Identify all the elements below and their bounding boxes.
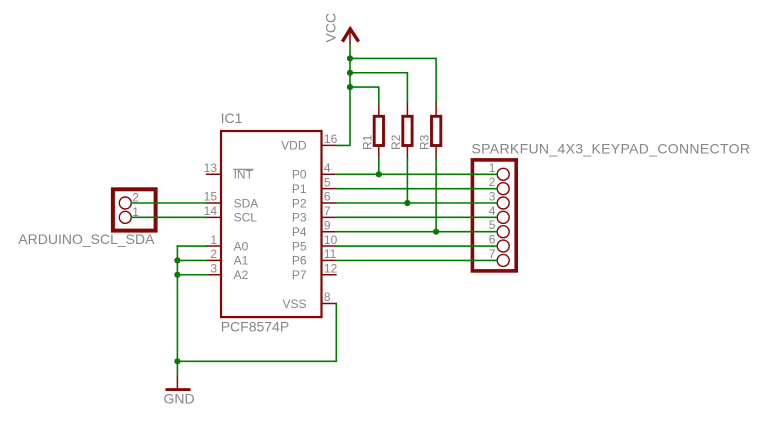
svg-text:9: 9 — [324, 218, 331, 232]
svg-text:5: 5 — [489, 218, 496, 232]
svg-text:P7: P7 — [292, 268, 307, 282]
svg-text:15: 15 — [204, 190, 218, 204]
svg-text:10: 10 — [324, 233, 338, 247]
svg-text:1: 1 — [489, 161, 496, 175]
svg-text:6: 6 — [489, 233, 496, 247]
svg-text:R1: R1 — [360, 134, 374, 150]
svg-text:VDD: VDD — [281, 139, 307, 153]
svg-text:VCC: VCC — [323, 13, 339, 43]
svg-text:P4: P4 — [292, 225, 307, 239]
svg-text:A0: A0 — [234, 239, 249, 253]
svg-text:2: 2 — [489, 175, 496, 189]
svg-text:7: 7 — [489, 247, 496, 261]
svg-text:3: 3 — [489, 190, 496, 204]
svg-text:1: 1 — [132, 205, 139, 219]
svg-text:5: 5 — [324, 175, 331, 189]
svg-text:14: 14 — [204, 204, 218, 218]
svg-text:1: 1 — [210, 233, 217, 247]
svg-text:8: 8 — [324, 290, 331, 304]
svg-text:SDA: SDA — [234, 196, 259, 210]
svg-text:6: 6 — [324, 190, 331, 204]
svg-text:A1: A1 — [234, 254, 249, 268]
svg-text:R3: R3 — [418, 134, 432, 150]
svg-text:P1: P1 — [292, 182, 307, 196]
svg-text:P0: P0 — [292, 168, 307, 182]
svg-text:12: 12 — [324, 261, 338, 275]
svg-text:PCF8574P: PCF8574P — [221, 318, 289, 334]
svg-text:SCL: SCL — [234, 211, 258, 225]
svg-text:VSS: VSS — [282, 297, 306, 311]
svg-text:R2: R2 — [389, 134, 403, 150]
svg-text:13: 13 — [204, 161, 218, 175]
svg-text:IC1: IC1 — [221, 110, 243, 126]
svg-text:2: 2 — [132, 191, 139, 205]
svg-text:16: 16 — [324, 132, 338, 146]
svg-text:P3: P3 — [292, 211, 307, 225]
svg-text:A2: A2 — [234, 268, 249, 282]
svg-text:11: 11 — [324, 247, 337, 261]
svg-text:GND: GND — [164, 391, 195, 407]
svg-text:4: 4 — [489, 204, 496, 218]
svg-text:3: 3 — [210, 261, 217, 275]
svg-text:2: 2 — [210, 247, 217, 261]
svg-text:P2: P2 — [292, 196, 307, 210]
svg-text:ARDUINO_SCL_SDA: ARDUINO_SCL_SDA — [18, 231, 155, 247]
svg-text:SPARKFUN_4X3_KEYPAD_CONNECTOR: SPARKFUN_4X3_KEYPAD_CONNECTOR — [472, 141, 751, 157]
svg-text:P6: P6 — [292, 254, 307, 268]
svg-text:7: 7 — [324, 204, 331, 218]
svg-text:4: 4 — [324, 161, 331, 175]
svg-text:P5: P5 — [292, 239, 307, 253]
